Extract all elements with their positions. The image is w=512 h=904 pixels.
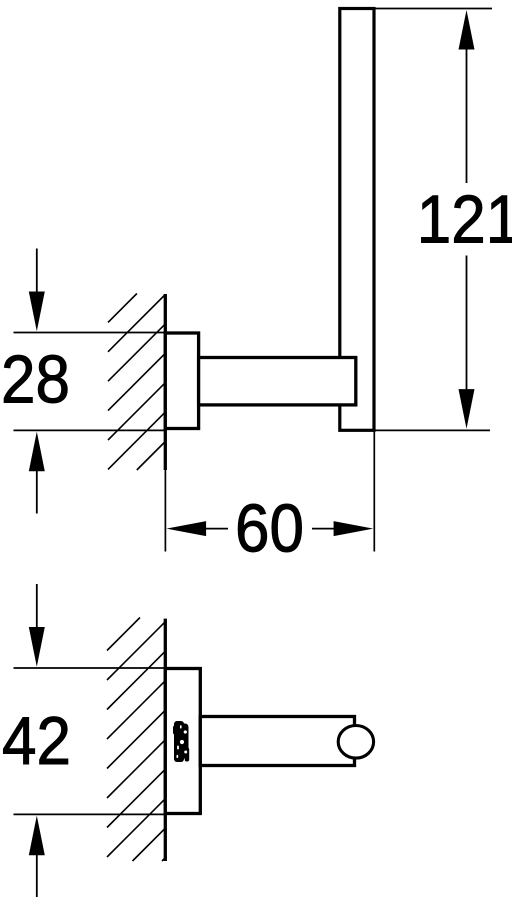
vertical roll bar (front view) xyxy=(340,9,374,431)
dimension arrow up (28) xyxy=(29,432,45,514)
dimension line 121 upper with up arrow xyxy=(459,10,475,183)
wall hatching (front view) xyxy=(108,294,165,471)
extension line bottom of 28 / bottom of bar xyxy=(14,429,167,431)
dimension line 60 with left arrow xyxy=(166,521,228,536)
GROHE logo (rotated wordmark blob) xyxy=(173,721,189,762)
extension line right of 60 xyxy=(373,431,375,552)
extension line top of 28 xyxy=(14,332,167,334)
svg-text:28: 28 xyxy=(1,341,70,417)
wall line (front view) xyxy=(164,294,167,470)
wall line (top view) xyxy=(164,619,167,861)
svg-text:42: 42 xyxy=(2,703,71,779)
svg-text:121: 121 xyxy=(417,181,512,257)
wall plate (top view) xyxy=(165,669,200,814)
extension line top of 121 xyxy=(374,8,492,10)
extension line bottom of 121 xyxy=(375,429,490,431)
dimension line 60 with right arrow xyxy=(312,521,373,536)
dimension arrow down (28) xyxy=(29,249,45,332)
roll post (top view) xyxy=(200,717,354,766)
extension line left of 60 xyxy=(164,466,166,552)
extension line top of 42 xyxy=(14,667,167,669)
dimension arrow up (42) xyxy=(29,816,45,897)
svg-text:60: 60 xyxy=(235,490,304,566)
wall plate (front view) xyxy=(165,333,198,429)
support arm (front view) xyxy=(199,358,356,405)
wall hatching (top view) xyxy=(107,618,165,862)
end knob circle xyxy=(338,726,373,759)
dimension arrow down (42) xyxy=(29,584,45,667)
extension line bottom of 42 xyxy=(14,813,167,815)
dimension line 121 lower with down arrow xyxy=(459,256,475,429)
